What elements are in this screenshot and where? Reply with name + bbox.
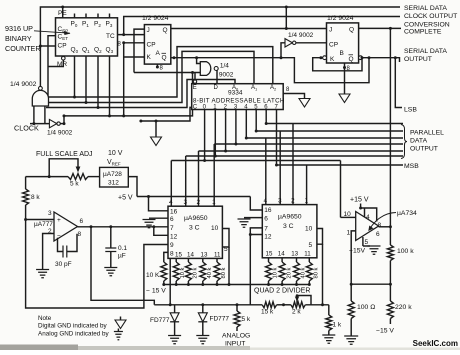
wire pin stub 80 k bank1 [216,258,218,262]
DAC U10 uA9650 [262,205,317,258]
wire to counter CP [40,45,55,47]
junction pin12 [152,225,155,228]
svg-text:3 C: 3 C [189,225,200,232]
DAC U9 uA9650 [168,206,222,258]
resistor 10 k bank1 [173,262,179,281]
svg-text:LSB: LSB [404,107,417,114]
wire comparator strobe drop [340,161,342,218]
pin 8 stub U3 [156,64,158,67]
svg-text:10 K: 10 K [146,272,160,279]
bundle line L3 to A0 [46,80,235,108]
pin P0 stub [74,14,76,18]
svg-text:Q: Q [349,27,354,34]
wire latch out2 [225,110,227,152]
svg-text:−15 V: −15 V [376,328,394,335]
buffer U6 triangle [285,39,292,47]
feedback wire comparator to J/K line [389,28,391,226]
wire Q U4 to conversion complete [359,27,401,29]
svg-text:220 k: 220 k [395,304,412,311]
junction 100k bottom [389,283,392,286]
svg-text:5 k: 5 k [242,316,251,323]
wire op-amp - input [43,234,54,270]
analog ground op-amp [36,270,49,278]
svg-text:8-BIT ADDRESSABLE LATCH: 8-BIT ADDRESSABLE LATCH [193,98,285,105]
pin 8 stub U4 [344,63,346,68]
svg-text:100 Ω: 100 Ω [357,304,375,311]
wire K of U3 [124,43,145,57]
wire Q of U3 to J of U4 [171,28,327,30]
diode D2 FD777 [202,305,204,313]
reference U8 uA728 [100,167,129,187]
svg-text:Q: Q [349,56,354,63]
junction PE [61,6,64,9]
svg-text:3 C: 3 C [283,223,294,230]
resistor R19 100k [389,227,391,245]
svg-text:4: 4 [366,214,370,221]
NAND gate U5 1/4 9002 [200,62,211,76]
svg-text:6: 6 [376,231,380,238]
pin 4 riser [364,208,366,217]
svg-text:13: 13 [201,252,208,259]
svg-text:5: 5 [365,239,369,246]
svg-text:9002: 9002 [219,71,234,78]
junction 100ohm top [350,283,353,286]
wire pin stub 40 k bank2 [296,258,298,262]
svg-text:BINARY: BINARY [5,34,32,43]
svg-text:10: 10 [211,225,219,232]
wire latch out1 [214,110,216,157]
resistor 40 k bank2 [294,262,300,281]
svg-text:15: 15 [175,252,182,259]
analog ground U10 pin6 [244,217,262,219]
clock wire [30,123,49,125]
NAND gate U2 1/4 9002 [32,90,48,106]
svg-text:7: 7 [264,226,268,233]
full scale bracket [49,159,78,177]
wire TC to CLOCK OUTPUT line [124,17,400,35]
wire Q3 drop [109,56,111,116]
svg-text:6: 6 [170,216,174,223]
svg-text:10: 10 [305,226,313,233]
NAND2 input hook to Qbar line [197,58,201,64]
wire J of U3 hook [134,29,144,72]
trim bypass over 2k [297,296,311,305]
note digital gnd symbol [120,317,122,321]
svg-text:SERIAL DATA: SERIAL DATA [404,48,447,55]
wire 8k top [25,177,27,189]
pot wiper arrow [76,167,81,173]
svg-text:14: 14 [187,252,194,259]
svg-text:SERIAL DATA: SERIAL DATA [404,5,447,12]
wire U9 pins 10/5 [222,229,229,248]
wire pin stub 80 k bank2 [308,258,310,262]
svg-text:K: K [147,54,152,61]
svg-text:20 k: 20 k [286,267,292,278]
junction +5V [147,195,150,198]
svg-text:13: 13 [291,251,298,258]
resistor R17 5k analog input [236,305,238,311]
wire buffer B [281,43,285,58]
svg-text:11: 11 [214,252,221,259]
svg-text:µA777: µA777 [34,221,53,228]
svg-text:1: 1 [212,199,216,206]
wire +5V to U9 pin16 [149,197,169,211]
wire latch out3 [235,110,237,145]
wire PE [62,7,64,18]
digital ground mid riser [155,121,157,137]
svg-text:A2: A2 [270,85,277,92]
svg-text:15 k: 15 k [261,309,274,316]
svg-text:1/2 9024: 1/2 9024 [327,15,354,22]
analog ground 0.1uF [104,268,117,276]
wire drop to DAC out5 [279,131,281,205]
svg-text:D: D [214,85,219,91]
svg-text:OUTPUT: OUTPUT [410,146,438,153]
svg-text:16: 16 [170,209,178,216]
svg-text:Q: Q [162,55,167,62]
wire NAND2 output down to latch D [216,70,218,83]
wire TC column down to L4 [123,57,125,116]
svg-text:J: J [147,27,150,34]
wire U10 pins 10/5 [317,229,323,245]
analog ground U12 [363,245,370,247]
svg-text:3: 3 [278,198,282,205]
latch E bubble [193,80,196,83]
capacitor C2 0.1uF [110,227,112,248]
brace parallel data [401,125,407,159]
wire pin 1 U12 [351,231,356,284]
svg-text:C: C [193,105,198,111]
wire vref line [26,176,68,178]
wire drop to DAC out2 [198,151,200,206]
resistor R18 1k [328,305,330,315]
svg-text:5: 5 [309,242,313,249]
clock buffer 1/4 9002 [49,119,56,127]
svg-text:100 k: 100 k [397,248,414,255]
svg-text:µA9650: µA9650 [278,214,302,221]
svg-text:1/4 9002: 1/4 9002 [288,32,314,39]
wire pin stub 40 k bank1 [202,258,204,262]
svg-text:Digital GND indicated by: Digital GND indicated by [38,323,107,330]
wire drop to DAC out0 comparator line [170,161,172,207]
wire uA728 to +5V rail [128,177,137,197]
svg-text:PE: PE [58,10,67,17]
svg-text:10 k: 10 k [273,267,279,278]
junction Qbar line [280,56,283,59]
svg-text:9316 UP: 9316 UP [5,24,33,33]
resistor R1 5k pot [68,174,88,180]
svg-text:12: 12 [264,234,272,241]
svg-text:J: J [329,27,332,34]
digital ground below U4 [344,68,346,94]
svg-text:30 pF: 30 pF [55,261,72,268]
pointer arrow to counter [34,31,70,33]
junction 8 [156,66,159,69]
wire Qbar of U3 loop under U4 [171,58,369,83]
svg-text:8: 8 [78,231,82,238]
pin P2 stub [97,14,99,18]
pin P1 stub [85,14,87,18]
wire +5V to U10 pin16 [250,197,262,211]
svg-text:15: 15 [266,251,273,258]
svg-text:3: 3 [48,210,52,217]
junction CP U3 [122,41,125,44]
svg-text:4: 4 [169,199,173,206]
junction op-amp input [24,218,27,221]
op-amp output wire [78,226,169,228]
wire latch out6 [265,110,267,124]
svg-text:QUAD 2 DIVIDER: QUAD 2 DIVIDER [254,288,310,295]
svg-text:µA9650: µA9650 [184,215,208,222]
svg-text:CLOCK OUTPUT: CLOCK OUTPUT [404,13,457,20]
analog ground 100ohm [344,336,358,344]
-15V rail [164,284,309,286]
junction full scale [48,175,51,178]
svg-text:1 k: 1 k [333,322,342,329]
svg-text:1: 1 [347,230,351,237]
svg-text:FD777: FD777 [150,317,170,324]
svg-text:4: 4 [264,198,268,205]
svg-text:80 k: 80 k [221,267,227,278]
junction CP [39,45,42,48]
svg-text:E: E [193,85,197,91]
svg-text:CONVERSION: CONVERSION [404,22,450,29]
+5V rail [137,196,250,198]
ground T2 [339,94,350,103]
wire NAND1 output to SERIAL DATA line [40,7,400,86]
svg-text:K: K [330,56,335,63]
svg-text:20 k: 20 k [192,267,198,278]
riser clock to L4 [63,116,65,124]
svg-text:7: 7 [170,225,174,232]
svg-text:6: 6 [80,218,84,225]
svg-text:16: 16 [264,207,272,214]
wire pin stub 10 k bank1 [175,258,177,262]
resistor R2 8k [23,189,29,205]
junction 0.1uF [109,225,112,228]
svg-text:8: 8 [378,222,382,229]
svg-text:2: 2 [197,199,201,206]
wire latch out4 [245,110,247,139]
svg-text:COUNTER: COUNTER [5,44,41,53]
wire drop to DAC out7 MSB line [306,165,308,205]
svg-text:9: 9 [170,242,174,249]
wire latch out5 [255,110,257,132]
wire between 15k 2k [277,304,291,306]
svg-text:B: B [340,50,344,57]
wire TC to FF-A [118,34,145,36]
counter U1 9316 [56,18,118,56]
svg-text:−15V: −15V [349,248,366,255]
wire drop to DAC out4 [265,138,267,205]
svg-text:+: + [57,217,61,224]
K input bubble [323,56,327,60]
svg-text:+15 V: +15 V [350,197,369,204]
latch U7 9334 [192,84,284,110]
wire uA777 output down [91,227,154,305]
junction output [90,225,93,228]
svg-text:14: 14 [278,251,285,258]
op-amp U11 uA777 [54,212,78,241]
svg-text:INPUT: INPUT [225,341,245,348]
wire CP of U3 [124,42,145,44]
resistor 10 K bank1 [161,262,167,281]
resistor 10 k bank2 [266,262,272,281]
resistor R21 220k [389,284,391,301]
svg-text:+5 V: +5 V [118,195,133,202]
wire pin stub 20 k bank1 [187,258,189,262]
clock wire 2 [60,123,64,125]
wire E riser [194,73,196,81]
wire drop to DAC out1 [185,156,187,206]
wire pin 12 loop U9 [154,227,168,236]
wire U10 pins 7/12 [250,228,262,235]
svg-text:MSB: MSB [404,163,419,170]
junction TC [122,33,125,36]
resistor R16 2k [291,302,305,308]
svg-text:CLOCK: CLOCK [14,124,39,133]
serial out hook [395,58,399,62]
svg-text:− 15 V: − 15 V [146,288,166,295]
ground T1 [299,99,310,108]
svg-text:1/4 9002: 1/4 9002 [47,130,73,137]
note analog gnd symbol [117,329,119,332]
svg-text:COMPLETE: COMPLETE [404,29,442,36]
wire pin stub 20 k bank2 [281,258,283,262]
comparator output junction [389,225,392,228]
svg-text:8: 8 [170,251,174,258]
svg-text:80 k: 80 k [314,267,320,278]
wire 8k bottom loop to U9 pin 9 [26,205,168,308]
30pF feedback [58,238,64,252]
junction to FF-B J [285,6,288,9]
resistor 40 k bank1 [200,262,206,281]
svg-text:FULL SCALE ADJ: FULL SCALE ADJ [36,151,93,158]
svg-text:µA734: µA734 [397,210,417,217]
svg-text:6: 6 [264,216,268,223]
svg-text:8 k: 8 k [31,194,40,201]
wire Qbar U4 to LSB [362,58,402,108]
analog input stub [236,327,238,331]
svg-text:40 k: 40 k [301,267,307,278]
svg-text:A1: A1 [251,85,258,92]
resistor R15 15k [262,302,276,308]
wire 10K to pin 8 [164,252,168,262]
bundle line L1 to A2 [48,47,273,97]
svg-text:PARALLEL: PARALLEL [410,130,444,137]
svg-text:10 k: 10 k [180,267,186,278]
svg-text:10 V: 10 V [108,150,123,157]
flip-flop U4 1/2 9024 [327,23,359,63]
svg-text:A0: A0 [232,85,239,92]
wire CET down [48,36,56,97]
resistor 20 k bank1 [185,262,191,281]
svg-text:TC: TC [106,33,115,40]
wire pin8 U9 to summing [169,258,171,304]
svg-text:CP: CP [58,43,67,50]
svg-text:Note: Note [38,315,52,322]
resistor 80 k bank1 [214,262,220,281]
svg-text:3: 3 [184,199,188,206]
wire latch out7 MSB line [276,110,278,166]
annotation arrow uA734 [370,213,397,230]
svg-text:1/4: 1/4 [220,63,229,70]
address line E/NAND-b from J hook [134,72,200,74]
svg-text:ANALOG: ANALOG [222,333,250,340]
FF-B K feedback loop from Qbar [313,58,362,71]
wire MR [48,60,63,67]
svg-text:40 k: 40 k [207,267,213,278]
svg-text:CP: CP [147,42,156,49]
wire Q2 drop [97,56,99,108]
svg-text:CP: CP [329,42,338,49]
wire to J of U4 [285,7,287,29]
svg-text:11: 11 [304,251,311,258]
svg-text:µA728: µA728 [103,171,122,178]
svg-text:SeekIC.com: SeekIC.com [413,339,458,348]
wire divider node [351,283,390,285]
bundle line L2 to A1 [40,51,254,102]
wire +15V to pin4 [360,204,362,209]
wire latch C [141,107,192,121]
svg-text:FD777: FD777 [210,316,230,323]
svg-text:10: 10 [344,211,352,218]
svg-text:1: 1 [305,198,309,205]
pin P3 stub [109,14,111,18]
resistor 20 k bank2 [279,262,285,281]
wire pot to uA728 [88,176,100,178]
svg-text:OUTPUT: OUTPUT [404,56,432,63]
wire Q1 drop [85,56,87,103]
diode D1 FD777 [174,305,176,313]
wire 2k to 1k [305,304,329,306]
comparator U12 uA734 [356,212,379,241]
svg-text:1/2 9024: 1/2 9024 [142,15,169,22]
summing line left [154,304,262,306]
wire pin stub 10 k bank2 [268,258,270,262]
wire drop to DAC out6 [292,124,294,205]
svg-text:Analog GND indicated by: Analog GND indicated by [38,331,110,338]
svg-text:2 k: 2 k [292,309,301,316]
wire drop to DAC out3 [213,144,215,206]
svg-text:2: 2 [291,198,295,205]
wire Q0 drop [74,56,76,97]
flip-flop U3 1/2 9024 [144,25,170,65]
svg-text:Q: Q [163,27,168,34]
wire op-amp + input [26,219,54,221]
svg-text:DATA: DATA [410,138,428,145]
svg-text:5 k: 5 k [70,181,79,188]
junction feedback [389,27,392,30]
pin 5 wire -15V [362,237,364,246]
NAND1 input wires [33,106,35,124]
Qbar output bubble [359,56,363,60]
resistor 80 k bank2 [306,262,312,281]
svg-text:1/4 9002: 1/4 9002 [10,81,37,88]
scan shading bottom [0,346,250,350]
resistor R20 100 ohm [350,284,352,301]
svg-text:µF: µF [118,253,126,260]
bundle line L4 riser [64,73,193,116]
pin MR bubble [62,56,66,60]
svg-text:A: A [156,50,161,57]
wire U10 ref down [249,235,251,305]
svg-text:12: 12 [170,234,178,241]
wire latch out0 comparator line [204,110,206,161]
svg-text:0.1: 0.1 [118,245,127,252]
analog ground U9 pin6 [149,217,168,219]
latch pin 8 wire [283,94,304,99]
